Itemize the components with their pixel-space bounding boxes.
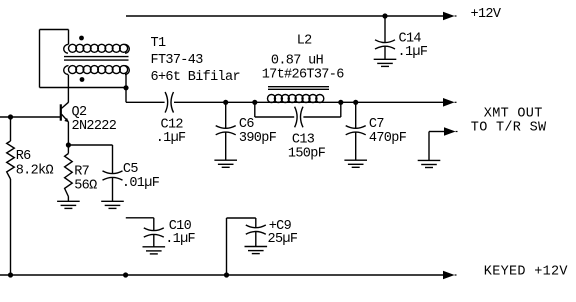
wire: loop drop to T1 top winding left end: [68, 30, 70, 45]
node: keyed rail junction (C10 stub): [123, 272, 128, 277]
wire: L2 right junction to C7 tap: [341, 101, 356, 103]
transformer T1 core: [64, 57, 129, 61]
wire: to C13 left plate: [255, 116, 294, 118]
ground at T/R return: [418, 160, 441, 167]
T1 phasing dot (top): [79, 36, 84, 41]
T1 label: [151, 36, 240, 85]
svg-text:R6: R6: [16, 149, 31, 164]
wire: C10 stub wire: [126, 217, 154, 219]
node: C9 / keyed rail junction: [224, 272, 229, 277]
ground at C5: [101, 201, 124, 208]
node: C7 tap: [353, 100, 358, 105]
node: R6 / keyed rail junction: [8, 272, 13, 277]
svg-text:56Ω: 56Ω: [74, 179, 97, 194]
inductor L2 core: [268, 87, 329, 90]
wire: C5 bottom lead: [112, 178, 114, 202]
svg-text:.1µF: .1µF: [398, 45, 428, 60]
wire: C14 bottom lead: [384, 47, 386, 60]
wire: C9 top lead: [255, 218, 257, 227]
node: top rail / C14 junction: [382, 13, 387, 18]
capacitor C13: [295, 107, 303, 128]
wire: C5 top lead: [112, 145, 114, 173]
svg-text:150pF: 150pF: [288, 146, 326, 161]
wire: C6 junction to L2 left junction: [226, 101, 255, 103]
resistor R7: [65, 154, 73, 197]
wire: junction down to output line: [125, 88, 127, 103]
svg-text:470pF: 470pF: [369, 131, 407, 146]
svg-text:C6: C6: [239, 117, 254, 132]
svg-text:6+6t Bifilar: 6+6t Bifilar: [151, 70, 240, 85]
svg-text:FT37-43: FT37-43: [151, 53, 204, 68]
R7 value label: [74, 165, 97, 194]
wire: R6 top lead: [10, 117, 12, 141]
wire: C7 bottom lead: [355, 132, 357, 160]
wire: keyed rail up to C9: [226, 218, 228, 275]
wire: R6 bottom lead to keyed rail: [10, 179, 12, 275]
C5 value label: [122, 162, 160, 191]
wire: C7 top lead: [355, 102, 357, 128]
wire: loop left vertical: [39, 30, 41, 88]
transformer T1 bottom winding: [64, 66, 130, 75]
wire: output line T1 to C12: [126, 101, 165, 103]
net label XMT OUT / TO T/R SW: [471, 106, 547, 135]
transistor Q2: [61, 102, 69, 122]
svg-text:C5: C5: [123, 162, 138, 177]
R6 value label: [16, 149, 54, 179]
capacitor C14: [375, 40, 395, 49]
wire: L2 left junction down: [254, 102, 256, 117]
wire: C9 bottom lead: [255, 232, 257, 247]
wire: grounded T/R return horizontal: [429, 131, 445, 133]
wire: C9 horizontal: [227, 217, 256, 219]
svg-text:.01µF: .01µF: [122, 176, 160, 191]
C10 value label: [165, 219, 195, 247]
svg-text:L2: L2: [297, 34, 312, 49]
transformer T1 top winding: [64, 44, 130, 53]
C13 value label: [288, 132, 326, 161]
svg-text:0.87 uH: 0.87 uH: [271, 53, 324, 68]
svg-text:2N2222: 2N2222: [72, 119, 117, 134]
wire: T1 bottom winding right terminal: [125, 75, 127, 88]
svg-text:25µF: 25µF: [268, 232, 298, 247]
wire: C6 bottom lead: [225, 132, 227, 160]
L2 label: [262, 34, 345, 83]
wire: C10 top lead: [153, 218, 155, 231]
C14 value label: [398, 32, 428, 61]
ground at C7: [344, 160, 367, 167]
ground at C6: [214, 160, 237, 167]
wire: KEYED +12V bottom rail: [0, 274, 443, 276]
arrow: +12V rail arrowhead: [443, 12, 457, 21]
capacitor C5: [103, 171, 123, 180]
ground at R7: [57, 201, 80, 208]
svg-text:17t#26T37-6: 17t#26T37-6: [262, 68, 345, 83]
capacitor C10: [144, 228, 164, 237]
svg-text:T1: T1: [151, 36, 166, 51]
wire: C6 top lead: [225, 102, 227, 128]
node: T1 right terminal junction: [123, 85, 128, 90]
wire: emitter down to junction: [67, 122, 69, 145]
arrow: XMT OUT: [443, 98, 457, 107]
wire: down to ground: [428, 132, 430, 161]
C9 value label: [268, 219, 298, 247]
svg-text:8.2kΩ: 8.2kΩ: [16, 164, 54, 179]
ground at C10: [143, 247, 166, 254]
inductor L2: [268, 95, 324, 103]
Q2 label: [72, 105, 117, 134]
ground at C9: [245, 247, 268, 254]
svg-text:KEYED +12V: KEYED +12V: [484, 265, 569, 280]
wire: line under L2 coil: [255, 101, 341, 103]
node: C6 tap: [223, 100, 228, 105]
C12 value label: [156, 118, 186, 146]
svg-text:C13: C13: [292, 132, 315, 147]
svg-text:390pF: 390pF: [239, 131, 277, 146]
svg-text:C7: C7: [369, 117, 384, 132]
wire: loop from T1 primary top to collector net (top segment): [40, 29, 69, 31]
ground at C14: [374, 59, 397, 66]
wire: C13 right plate to L2 right junction: [303, 116, 340, 118]
wire: R7 top lead: [67, 145, 69, 154]
resistor R6: [7, 141, 15, 179]
wire: up to L2 right junction: [340, 102, 342, 117]
svg-text:R7: R7: [74, 165, 89, 180]
node: base / R6 junction: [8, 114, 13, 119]
svg-text:.1µF: .1µF: [165, 232, 195, 247]
wire: R7 bottom lead: [67, 197, 69, 202]
svg-text:+12V: +12V: [471, 7, 502, 22]
node: emitter / R7 / C5 junction: [66, 142, 71, 147]
capacitor C6: [216, 126, 236, 135]
svg-text:XMT OUT: XMT OUT: [484, 106, 543, 121]
wire: emitter junction to C5: [68, 144, 112, 146]
node: L2 right junction: [338, 100, 343, 105]
wire: C7 tap to output arrow: [356, 101, 443, 103]
wire: T1 bottom winding left terminal down to Q2 collector: [67, 75, 69, 103]
wire: horizontal from loop to T1 secondary junction: [40, 87, 127, 89]
capacitor C12: [165, 92, 173, 113]
capacitor C7: [346, 126, 366, 135]
svg-text:Q2: Q2: [72, 105, 87, 120]
arrow: keyed rail arrowhead: [443, 271, 457, 280]
arrow: to T/R SW: [444, 127, 458, 136]
wire: C12 to C6 junction: [174, 101, 226, 103]
capacitor C9: [246, 225, 266, 234]
T1 phasing dot (bottom): [80, 77, 85, 82]
node: L2 left junction: [252, 100, 257, 105]
wire: base wire from left edge: [0, 116, 60, 118]
net label +12V: [471, 7, 502, 22]
C7 value label: [369, 117, 407, 146]
wire: +12V top rail: [126, 15, 443, 17]
wire: C10 bottom lead: [153, 235, 155, 247]
svg-text:.1µF: .1µF: [156, 131, 186, 146]
wire: C14 top lead: [384, 16, 386, 42]
net label KEYED +12V: [484, 265, 569, 280]
svg-text:TO T/R SW: TO T/R SW: [471, 120, 547, 135]
C6 value label: [239, 117, 277, 146]
